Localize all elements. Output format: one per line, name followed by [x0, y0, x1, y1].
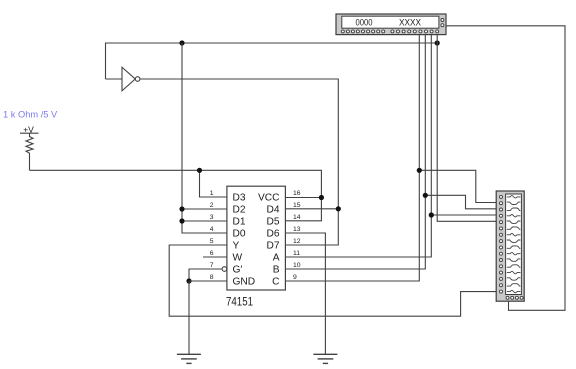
svg-text:4: 4 — [210, 226, 214, 233]
svg-text:2: 2 — [210, 202, 214, 209]
wire top net (inverter input feedback) — [106, 43, 438, 79]
resistor pack elements — [507, 196, 521, 293]
svg-text:11: 11 — [293, 250, 300, 257]
wire inverter output to D4/D7 — [140, 79, 338, 245]
junction dot D1 — [179, 218, 184, 223]
svg-text:D2: D2 — [233, 205, 246, 216]
svg-text:XXXX: XXXX — [399, 18, 421, 28]
svg-text:W: W — [233, 253, 243, 264]
svg-text:5: 5 — [210, 238, 214, 245]
wire tap B-line to pack row2 — [425, 195, 496, 209]
svg-text:74151: 74151 — [226, 297, 253, 309]
junction dot tap1 — [417, 168, 422, 173]
svg-text:Y: Y — [233, 241, 240, 252]
display right-side pins — [441, 19, 444, 27]
wire pin2 D2 stub — [182, 208, 227, 210]
wire to ground 1 — [188, 281, 190, 354]
svg-text:8: 8 — [210, 274, 214, 281]
junction dot VCC — [319, 195, 324, 200]
wire vertical bus to D0/D1/D2 — [182, 43, 227, 233]
resistor pack RP1 body — [496, 191, 524, 301]
display U3 body — [336, 14, 446, 35]
svg-text:D5: D5 — [266, 217, 279, 228]
svg-text:D0: D0 — [233, 229, 246, 240]
svg-text:14: 14 — [293, 214, 301, 221]
wire select B pin10 — [285, 35, 425, 269]
wire Y net pin5 to resistor pack pin16 — [169, 245, 496, 316]
svg-text:9: 9 — [293, 274, 297, 281]
wire W stub pin6 — [203, 256, 227, 258]
svg-text:VCC: VCC — [258, 193, 280, 204]
display bottom pins right group — [391, 30, 439, 33]
svg-text:A: A — [273, 253, 280, 264]
wire select C pin9 — [285, 35, 419, 281]
svg-text:D7: D7 — [266, 241, 279, 252]
svg-text:10: 10 — [293, 262, 301, 269]
wire display pin to pack row4 — [437, 35, 496, 222]
wire pin3 D1 stub — [182, 220, 227, 222]
inverting bubble pin7 — [222, 267, 227, 272]
power +V symbol — [20, 124, 39, 134]
ground 1 — [177, 354, 201, 363]
junction dot D2 — [179, 206, 184, 211]
inverter U2 — [122, 67, 140, 91]
svg-text:C: C — [272, 277, 279, 288]
wire pin1 D3 branch — [200, 170, 227, 197]
wire G-bar pin7 to GND pin8 — [189, 269, 222, 281]
junction dot GND — [186, 278, 191, 283]
svg-text:13: 13 — [293, 226, 301, 233]
junction dot top/vert182 — [179, 40, 184, 45]
svg-text:12: 12 — [293, 238, 301, 245]
resistor pack bottom pins — [506, 296, 523, 299]
svg-text:D1: D1 — [233, 217, 246, 228]
junction dot at resistor rail / pin1 — [197, 168, 202, 173]
svg-text:7: 7 — [210, 262, 214, 269]
wire pin8 GND stub — [189, 280, 227, 282]
wire select A pin11 — [285, 35, 431, 257]
svg-text:15: 15 — [293, 202, 301, 209]
wire tap A-line to pack row3 — [431, 214, 496, 216]
svg-text:G′: G′ — [233, 265, 243, 276]
resistor R1 1k — [26, 133, 33, 170]
display bottom pins left group — [341, 30, 384, 33]
svg-text:16: 16 — [293, 190, 301, 197]
op IC U1 74151 body — [227, 186, 286, 290]
wire D6 pin13 to ground — [285, 233, 325, 354]
wire resistor net: +V rail to VCC/D5 — [30, 170, 322, 221]
wire tap C-line to pack row1 — [419, 170, 496, 202]
svg-text:B: B — [273, 265, 280, 276]
svg-text:D6: D6 — [266, 229, 279, 240]
ground 2 — [313, 354, 337, 363]
svg-text:D4: D4 — [266, 205, 279, 216]
svg-text:0000: 0000 — [356, 18, 373, 28]
wire pin15 D4 stub — [285, 208, 338, 210]
wire display right to pack bottom — [446, 26, 565, 311]
junction dot D4 — [336, 206, 341, 211]
junction dot tap3 — [429, 212, 434, 217]
svg-text:1: 1 — [210, 190, 214, 197]
junction dot top/display pin — [435, 40, 440, 45]
svg-text:1 k Ohm /5 V: 1 k Ohm /5 V — [3, 110, 58, 120]
resistor pack left pins — [500, 195, 503, 293]
svg-text:D3: D3 — [233, 193, 246, 204]
wire inverter input stub — [106, 78, 123, 80]
svg-text:6: 6 — [210, 250, 214, 257]
svg-text:GND: GND — [233, 277, 256, 288]
junction dot tap2 — [423, 193, 428, 198]
wire pin16 VCC stub — [285, 197, 321, 199]
svg-text:3: 3 — [210, 214, 214, 221]
